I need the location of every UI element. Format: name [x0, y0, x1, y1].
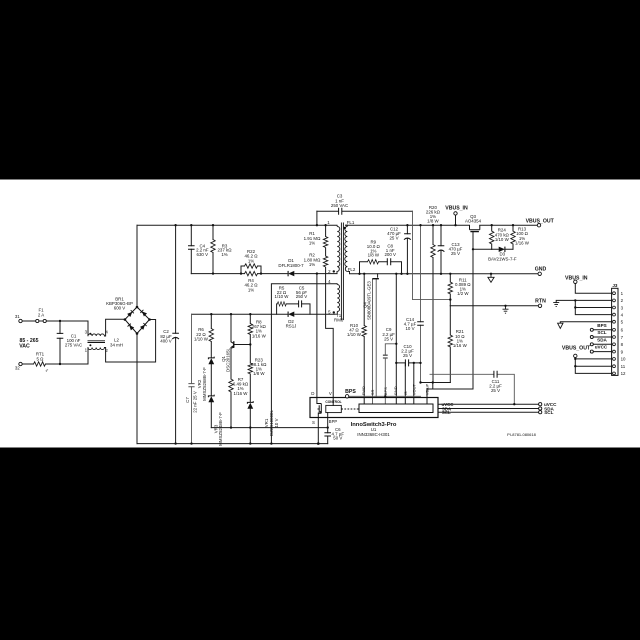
white schematic band [0, 180, 640, 448]
wire J3 BPS stub [593, 329, 611, 331]
thermistor RT1 [34, 362, 46, 366]
node R3 top [212, 224, 214, 226]
wire snubber R9-C8 loop [360, 262, 402, 274]
svg-text:C7: C7 [185, 397, 190, 403]
svg-text:10 V: 10 V [405, 326, 414, 331]
svg-text:1%: 1% [248, 258, 254, 263]
terminal VBUS_OUT right [574, 354, 577, 357]
zener VR3 [208, 395, 214, 403]
node B- rail VR1 [249, 442, 251, 444]
wire R24 branch [491, 225, 493, 249]
node bias rail R6 [210, 313, 212, 315]
svg-text:FL2: FL2 [348, 267, 356, 272]
node bias rail R8 [249, 313, 251, 315]
bridge BR1 [125, 307, 150, 334]
node B- rail C7 [190, 442, 192, 444]
node C4 top [190, 224, 192, 226]
svg-text:25 V: 25 V [451, 251, 460, 256]
wire R11 branch [449, 274, 451, 306]
terminal VBUS_IN top [454, 212, 457, 215]
node bridge minus vertex [136, 332, 139, 335]
terminal J3 BPS stub [590, 328, 593, 331]
wire bridge plus vertical [136, 225, 138, 307]
wire Q4 drain stub [377, 274, 379, 277]
node earth tap RTN [504, 305, 506, 307]
svg-text:25 V: 25 V [491, 388, 500, 393]
node R24 top [491, 224, 493, 226]
wire R22 parallel loop [241, 266, 261, 274]
wire J3 pins 2-4 ground [556, 300, 611, 314]
node drain to IC [316, 272, 318, 274]
node R22 left [240, 272, 242, 274]
svg-text:5 Ω: 5 Ω [37, 357, 45, 362]
node C10 right [419, 362, 421, 364]
resistor R5 [277, 302, 286, 306]
svg-text:1%: 1% [309, 262, 315, 267]
node C13 top [440, 224, 442, 226]
terminal SCL [539, 411, 542, 414]
node C1 top junction [59, 320, 61, 322]
node R13 top [512, 224, 514, 226]
svg-text:SB8080A09TL-GE3: SB8080A09TL-GE3 [367, 281, 372, 320]
node B- rail C2 [174, 442, 176, 444]
resistor R11 [448, 282, 452, 294]
svg-text:IS: IS [403, 391, 408, 395]
wire B+ rail [137, 224, 337, 226]
svg-text:1/10 W: 1/10 W [347, 332, 362, 337]
wire SDA line [438, 408, 539, 410]
capacitor C10 [405, 359, 408, 366]
wire R13 branch [512, 225, 514, 249]
svg-text:uVCC: uVCC [595, 345, 608, 350]
svg-text:250 V: 250 V [296, 294, 308, 299]
wire R23 VR1 chain [249, 345, 251, 444]
node B- rail bias return [270, 442, 272, 444]
IC U1 inner box [359, 404, 433, 413]
wire IC source pin [317, 413, 319, 444]
terminal uVCC [539, 403, 542, 406]
terminal J3 SCL stub [590, 336, 593, 339]
svg-text:RM8: RM8 [334, 318, 344, 323]
wire uVCC C11 line [430, 374, 514, 404]
wire B- rail [137, 443, 328, 445]
node Q1 base R23 [249, 343, 251, 345]
svg-text:630 V: 630 V [197, 252, 209, 257]
resistor R9 [368, 260, 379, 264]
node BPS pin tap [384, 395, 386, 397]
svg-text:31: 31 [15, 314, 20, 319]
diode D1 [288, 271, 294, 276]
wire J3 SCL stub [593, 336, 611, 338]
svg-text:1/10 W: 1/10 W [495, 237, 510, 242]
wire L2.2 to bridge AC2 [105, 320, 156, 363]
node C2 top [174, 224, 176, 226]
svg-text:32: 32 [15, 366, 20, 371]
mosfet Q4 sr-fet [372, 278, 379, 280]
wire J3 SDA stub [593, 343, 611, 345]
svg-text:1/16 W: 1/16 W [453, 343, 468, 348]
resistor R13 [511, 231, 515, 244]
node T1 pin2 phase dot [333, 270, 335, 272]
wire VBUS_IN stub [455, 215, 457, 225]
svg-text:1%: 1% [309, 241, 315, 246]
node snubber left [358, 273, 360, 275]
wire L2.4 to bridge AC1 [105, 319, 125, 336]
wire C12 branch [406, 225, 408, 274]
node VBUS_IN tap [454, 224, 456, 226]
node BPP pin tap [327, 426, 329, 428]
wire C1 branch [59, 321, 61, 364]
wire C3 top link [317, 210, 413, 212]
wire VOUT pin [413, 363, 415, 404]
svg-text:1/8 W: 1/8 W [253, 371, 265, 376]
chassis arrow J3 pin5 [558, 323, 563, 328]
node C3 link to RTN [449, 298, 451, 300]
resistor R8 [248, 324, 252, 335]
svg-text:BPS: BPS [345, 389, 356, 395]
node C14 bottom [419, 381, 421, 383]
resistor R7 [229, 379, 233, 392]
wire R20 to uP node [432, 383, 434, 390]
wire BPP pin C6 [327, 413, 329, 444]
svg-text:1/8 W: 1/8 W [427, 219, 439, 224]
node bridge AC1 vertex [124, 318, 127, 321]
svg-text:1/16 W: 1/16 W [515, 240, 530, 245]
terminal VBUS_IN right [574, 280, 577, 283]
transformer T1 primary winding [337, 227, 340, 272]
node C1 bottom junction [59, 363, 61, 365]
wire R10 FWD branch [363, 274, 365, 404]
wire R3 branch [212, 225, 214, 273]
node R20 top [432, 224, 434, 226]
diode D3 [499, 247, 505, 252]
capacitor C9 [383, 355, 388, 358]
bridge diode upper-right [140, 310, 147, 317]
node C14 top [419, 224, 421, 226]
node R11 top [449, 273, 451, 275]
svg-text:1/16 W: 1/16 W [252, 333, 267, 338]
svg-text:10: 10 [621, 357, 626, 362]
wire J3 uVCC stub [593, 351, 611, 353]
transformer T1 pin links [334, 225, 350, 314]
connector J3 body [612, 288, 618, 375]
wire R6 VR2 VR3 chain [210, 314, 212, 427]
wire bridge minus vertical [136, 334, 138, 444]
wire C2 branch [175, 225, 177, 443]
wire VBUS rail secondary [346, 224, 538, 226]
resistor R2 [323, 256, 327, 267]
svg-text:275 VAC: 275 VAC [65, 343, 82, 348]
node C13 bottom [440, 273, 442, 275]
svg-text:FWD: FWD [361, 386, 366, 395]
svg-text:PI-8781-080618: PI-8781-080618 [507, 432, 536, 437]
wire Q4 gate lines [373, 279, 377, 404]
capacitor C2 polarized [172, 333, 179, 339]
svg-text:DFLR1800-7: DFLR1800-7 [278, 263, 304, 268]
resistor R4 [245, 271, 258, 275]
wire C7 branch [191, 314, 193, 443]
resistor R1 [323, 237, 327, 248]
capacitor C5 [299, 300, 302, 307]
zener VR2 [208, 357, 214, 365]
svg-text:GND: GND [535, 267, 547, 273]
ground open-triangle secondary [488, 274, 494, 283]
terminal VBUS_OUT top [537, 224, 540, 227]
node R1 top [324, 224, 326, 226]
svg-text:200 V: 200 V [384, 252, 396, 257]
node bridge AC2 vertex [148, 318, 151, 321]
svg-text:VB/uP: VB/uP [425, 384, 430, 396]
svg-text:S: S [312, 420, 315, 425]
svg-text:25 V: 25 V [384, 336, 393, 341]
wire R1-R2-V chain [326, 225, 334, 405]
wire bias pin4 return [271, 284, 336, 444]
svg-text:FL1: FL1 [347, 220, 355, 225]
svg-text:22 nF 25 V: 22 nF 25 V [192, 391, 197, 413]
IC U1 outer box [310, 398, 438, 418]
wire Q1 chain [230, 314, 232, 427]
node GND pin top [395, 273, 397, 275]
wire C4 branch [190, 225, 192, 273]
svg-text:50 V: 50 V [333, 436, 342, 441]
svg-text:1/10 W: 1/10 W [275, 294, 290, 299]
svg-text:MMSZ5268B-7-F: MMSZ5268B-7-F [202, 367, 207, 401]
resistor R21 [448, 335, 452, 347]
svg-text:1/10 W: 1/10 W [194, 337, 209, 342]
mosfet Q3 [470, 225, 480, 231]
svg-text:SCL: SCL [597, 330, 606, 335]
node T1 FL1 phase dot [344, 227, 346, 229]
bridge diode lower-right [140, 323, 147, 330]
node Q3 gate D3 junction [472, 248, 474, 250]
resistor R20 [431, 245, 435, 258]
svg-text:400 V: 400 V [160, 339, 172, 344]
wire C3 right leg to RTN [413, 211, 451, 299]
node J3 pin2 gnd [574, 299, 576, 301]
svg-text:SCL: SCL [442, 410, 451, 415]
node R20 bottom [432, 381, 434, 383]
wire GND pin branch [395, 274, 397, 404]
capacitor C12 polarized [404, 234, 411, 240]
svg-text:VBUS_OUT: VBUS_OUT [526, 218, 555, 224]
capacitor C14 [417, 322, 424, 325]
wire GND rail secondary [350, 273, 539, 275]
wire bias rail pin5 [192, 313, 335, 315]
wire R5-C5 parallel box [277, 304, 310, 314]
wire VB-uP pin [427, 389, 473, 404]
terminal J3 SDA stub [590, 343, 593, 346]
node BPP line VR1 [249, 426, 251, 428]
terminal J3 uVCC stub [590, 350, 593, 353]
wire drain to IC D pin [316, 274, 318, 404]
node C9 to GND leg [395, 343, 397, 345]
wire uP sense link [421, 382, 451, 384]
svg-text:1%: 1% [221, 252, 227, 257]
svg-text:D: D [311, 391, 314, 396]
svg-text:12: 12 [621, 371, 626, 376]
terminal 32 [19, 362, 22, 365]
svg-text:t°: t° [46, 368, 49, 373]
wire AC line bottom (32-RT1-C1-L2.1) [21, 348, 89, 364]
wire C10 link [396, 362, 420, 364]
IC U1 feedback dashed link [341, 408, 359, 410]
IC U1 control box [326, 405, 342, 412]
svg-text:BPS: BPS [597, 323, 606, 328]
svg-text:25 V: 25 V [389, 236, 398, 241]
wire RTN rail [450, 305, 538, 307]
wire D3 link [492, 248, 513, 250]
wire AC line top (31-F1-C1-L2.3) [21, 321, 89, 336]
wire drain node line [191, 273, 337, 275]
node bridge plus vertex [136, 306, 139, 309]
fuse F1 [35, 319, 47, 322]
svg-text:DSC20165L: DSC20165L [226, 347, 231, 371]
svg-text:1/8 W: 1/8 W [368, 253, 380, 258]
svg-text:V: V [329, 391, 332, 396]
svg-text:RS1J: RS1J [286, 324, 297, 329]
transformer T1 secondary winding [345, 227, 348, 272]
svg-text:BAV21WS-7-F: BAV21WS-7-F [488, 256, 517, 261]
svg-text:10 V: 10 V [274, 418, 279, 427]
transistor Q1 [231, 340, 234, 349]
svg-text:VAC: VAC [19, 344, 30, 350]
resistor R6 [209, 329, 213, 342]
wire BPS pin line [349, 395, 421, 397]
capacitor C4 [188, 246, 195, 250]
terminal GND [538, 272, 541, 275]
wire R8 branch [249, 314, 251, 344]
diode D2 [288, 312, 294, 317]
node snubber right [400, 273, 402, 275]
node B- rail source [317, 442, 320, 445]
svg-text:11: 11 [621, 364, 626, 369]
capacitor C11 [494, 371, 497, 378]
earth ground J3 [553, 303, 559, 307]
wire R21 branch [449, 306, 451, 383]
wire IS pin [404, 363, 406, 404]
svg-text:J3: J3 [612, 283, 618, 288]
node gnd arrow tap [490, 273, 492, 275]
svg-text:VBUS_IN: VBUS_IN [565, 275, 588, 281]
transformer T1 core [341, 223, 343, 321]
node T1 pin5 phase dot [333, 311, 335, 313]
svg-text:CONTROL: CONTROL [325, 400, 341, 404]
node bias rail Q1 [230, 313, 232, 315]
svg-text:1%: 1% [248, 287, 254, 292]
wire VBUS_OUT J3 link [575, 358, 611, 374]
svg-text:INN3368C-H301: INN3368C-H301 [357, 432, 390, 437]
capacitor C3 [339, 208, 342, 215]
wire uVCC line [438, 403, 539, 405]
capacitor C8 [387, 258, 390, 265]
resistor R3 [211, 240, 215, 253]
wire Q3 gate chain [473, 232, 492, 390]
svg-text:VBUS_IN: VBUS_IN [445, 206, 468, 212]
wire Q1 base link [234, 344, 251, 346]
capacitor C7 [188, 384, 194, 387]
svg-text:2 A: 2 A [38, 313, 44, 318]
terminal RTN [538, 304, 541, 307]
svg-text:1/16 W: 1/16 W [234, 391, 249, 396]
svg-text:34 mH: 34 mH [110, 343, 123, 348]
svg-text:MMSZ5248B-7-F: MMSZ5248B-7-F [218, 412, 223, 446]
node J3 vbusout pin11 [574, 365, 576, 367]
node C12 bottom [406, 273, 408, 275]
zener VR1 [247, 401, 253, 409]
terminal 31 [19, 319, 22, 322]
wire J3 pin5 chassis [560, 322, 611, 324]
svg-text:1/2 W: 1/2 W [457, 291, 469, 296]
svg-text:600 V: 600 V [114, 306, 126, 311]
svg-text:BPS: BPS [383, 387, 388, 395]
node J3 vbusout pin10 [574, 358, 576, 360]
node C3 leg on rail [316, 224, 318, 226]
connector J3 pin circles [613, 292, 616, 375]
svg-text:SR: SR [370, 390, 375, 396]
svg-text:AO4354: AO4354 [465, 219, 482, 224]
wire BPP line [211, 427, 327, 429]
svg-text:250 VAC: 250 VAC [331, 203, 348, 208]
IC U1 primary mosfet [317, 404, 321, 414]
svg-text:SDA: SDA [597, 337, 607, 342]
wire C13 branch [440, 225, 442, 274]
terminal BPS [345, 395, 348, 398]
transformer T1 bias winding [337, 285, 339, 312]
resistor R23 [248, 363, 252, 374]
wire SCL line [438, 411, 539, 413]
svg-text:25 V: 25 V [403, 353, 412, 358]
choke L2 [88, 334, 106, 350]
node VOUT tap [413, 362, 415, 364]
svg-text:VOUT: VOUT [411, 384, 416, 396]
wire C9 branch [385, 344, 396, 397]
svg-text:BPP: BPP [329, 419, 338, 424]
node R10 top [363, 273, 365, 275]
node C10 left [395, 362, 397, 364]
capacitor C1 [57, 333, 64, 338]
terminal SDA [539, 407, 542, 410]
svg-text:SCL: SCL [544, 410, 553, 415]
capacitor C13 polarized [438, 246, 445, 252]
svg-text:RTN: RTN [535, 299, 546, 305]
earth ground RTN [503, 306, 509, 313]
svg-text:GND: GND [393, 386, 398, 395]
node C12 top [406, 224, 408, 226]
resistor R10 [362, 326, 366, 337]
wire R20 branch [432, 225, 434, 382]
wire C14 branch [420, 225, 422, 382]
capacitor C6 [324, 433, 331, 436]
node R22 right [260, 272, 262, 274]
label J3 pin numbers [621, 291, 626, 376]
node J3 pin3 gnd [574, 306, 576, 308]
bridge diode lower-left [128, 324, 135, 331]
node R3 bottom drain line [212, 272, 214, 274]
resistor R22 [245, 264, 258, 268]
wire BPS pin stub [384, 396, 386, 404]
node uVCC C11 tap [513, 403, 515, 405]
node BPP line Q1 [230, 426, 232, 428]
wire VBUS_IN J3 link [575, 284, 611, 294]
svg-text:VBUS_OUT: VBUS_OUT [562, 345, 591, 351]
bridge diode upper-left [127, 310, 134, 317]
wire C3 left leg [316, 211, 318, 225]
resistor R24 [490, 231, 494, 244]
